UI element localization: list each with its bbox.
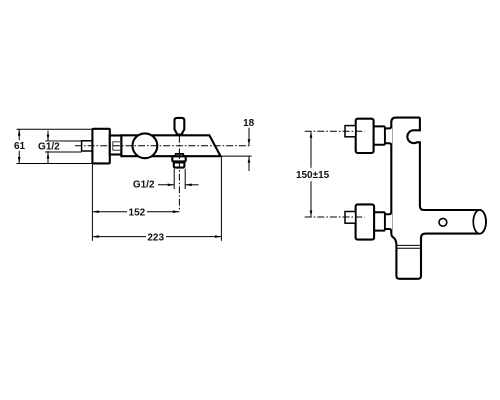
label G1/2 inlet	[37, 141, 61, 151]
extension line spout bottom (18)	[221, 155, 252, 157]
arrow G1/2 down	[47, 135, 50, 142]
top nipple	[345, 126, 356, 137]
extension line top (G1/2 inlet)	[45, 140, 82, 142]
handshower flange	[172, 156, 185, 161]
wall nipple	[82, 141, 93, 151]
top union flange line	[384, 126, 386, 144]
bottom union flange line	[384, 212, 386, 230]
centerline horizontal left view	[75, 145, 252, 147]
control knob	[133, 133, 158, 158]
arrow G1/2 up	[47, 152, 50, 159]
arrow outlet right	[185, 184, 198, 186]
extension line bottom (61)	[17, 163, 93, 165]
svg-text:152: 152	[129, 207, 146, 218]
connector cylinder	[110, 136, 122, 155]
svg-text:G1/2: G1/2	[133, 180, 155, 191]
outlet joint line	[396, 244, 421, 246]
spout end ellipse	[473, 210, 486, 234]
extension line left (outlet G1/2)	[173, 169, 175, 189]
top union neck	[374, 127, 392, 143]
extension line wall face (dims)	[91, 164, 93, 241]
label 150±15	[295, 168, 332, 181]
handshower outlet	[174, 162, 185, 167]
dimension line 61	[18, 129, 20, 163]
svg-text:150±15: 150±15	[296, 170, 330, 181]
top escutcheon	[356, 119, 374, 153]
svg-text:61: 61	[14, 141, 26, 152]
dimension 18 lower arrow	[248, 156, 250, 171]
bottom nipple	[345, 212, 356, 224]
dimension line G1/2	[47, 131, 49, 163]
spout body	[121, 135, 220, 156]
dimension line 152	[92, 211, 127, 213]
dimension line 223	[92, 236, 146, 238]
centerline bottom union	[305, 216, 365, 218]
bottom union neck	[374, 213, 392, 230]
svg-text:G1/2: G1/2	[38, 142, 60, 153]
dimension 18 upper arrow	[248, 128, 250, 146]
arrow outlet left	[158, 184, 174, 186]
centerline vertical diverter/outlet	[178, 136, 180, 212]
svg-text:223: 223	[147, 232, 164, 243]
label 61	[14, 140, 26, 151]
spout hole	[439, 218, 447, 226]
extension line spout tip	[220, 157, 222, 241]
connector inner nut	[113, 142, 121, 150]
arrow 61 down	[18, 157, 21, 164]
extension line bottom (G1/2 inlet)	[45, 151, 82, 153]
diverter knob	[175, 118, 185, 135]
wall escutcheon	[92, 129, 109, 164]
extension line right (outlet G1/2)	[184, 169, 186, 189]
centerline top union	[305, 130, 365, 132]
bottom escutcheon	[356, 204, 375, 239]
handshower boss	[175, 154, 184, 156]
dimension line 150±15	[310, 131, 312, 217]
arrow 61 up	[18, 129, 21, 136]
extension line top (61)	[17, 128, 93, 130]
valve body with spout arm and outlet	[391, 118, 486, 279]
svg-text:18: 18	[243, 118, 255, 129]
